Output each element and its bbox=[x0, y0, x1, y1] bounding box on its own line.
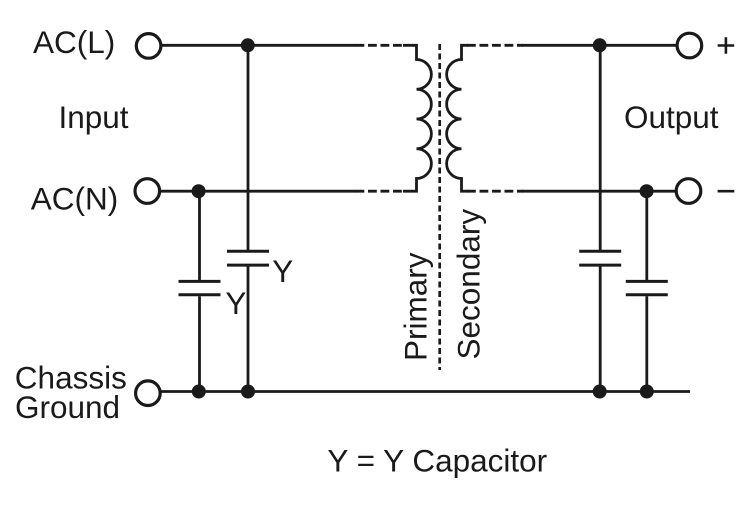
terminal chassis ground bbox=[136, 381, 161, 406]
wire vertical net plus to Y3 top plate bbox=[599, 45, 602, 250]
svg-text:Y: Y bbox=[225, 285, 246, 321]
wire AC(N) row: terminal to dash break bbox=[160, 190, 356, 193]
terminal output minus bbox=[676, 179, 701, 204]
capacitor Y4 top plate bbox=[626, 280, 668, 283]
svg-text:Primary: Primary bbox=[398, 252, 434, 361]
junction ground bus at Y3 bbox=[593, 385, 607, 399]
transformer T1 secondary winding bbox=[447, 45, 468, 191]
wire AC(L) row: dashed continuation to primary top bbox=[356, 44, 405, 47]
junction net N at Y1 tap bbox=[192, 184, 206, 198]
svg-text:Input: Input bbox=[59, 99, 129, 135]
wire AC(L) row: terminal to dash break bbox=[162, 44, 356, 47]
capacitor Y2 top plate bbox=[227, 250, 269, 253]
svg-text:AC(L): AC(L) bbox=[33, 24, 115, 60]
label plus sign bbox=[718, 37, 735, 54]
junction net L at Y2 tap bbox=[241, 38, 255, 52]
wire vertical Y3 bottom plate to ground bus bbox=[599, 266, 602, 391]
junction net minus at Y4 tap bbox=[640, 184, 654, 198]
svg-text:Output: Output bbox=[624, 99, 719, 135]
label minus sign bbox=[718, 190, 735, 193]
svg-text:Y: Y bbox=[272, 253, 293, 289]
wire vertical Y1 bottom plate to ground bus bbox=[198, 296, 201, 391]
wire vertical net N to Y1 top plate bbox=[198, 191, 201, 280]
junction ground bus at Y1 bbox=[192, 385, 206, 399]
wire vertical Y4 bottom plate to ground bus bbox=[645, 296, 648, 391]
capacitor Y1 top plate bbox=[179, 280, 221, 283]
wire AC(L) row right: secondary top dashed to output bbox=[467, 44, 523, 47]
wire AC(L) row right: solid to + terminal bbox=[522, 44, 676, 47]
capacitor Y3 bottom plate bbox=[579, 264, 621, 267]
wire minus row right: solid to minus terminal bbox=[522, 190, 676, 193]
junction net plus at Y3 tap bbox=[593, 38, 607, 52]
junction ground bus at Y4 bbox=[640, 385, 654, 399]
junction ground bus at Y2 bbox=[241, 385, 255, 399]
terminal AC(L) bbox=[136, 34, 161, 59]
transformer T1 primary winding bbox=[403, 45, 431, 191]
wire vertical net minus to Y4 top plate bbox=[645, 191, 648, 280]
capacitor Y4 bottom plate bbox=[626, 293, 668, 296]
svg-text:Ground: Ground bbox=[15, 389, 120, 425]
wire vertical Y2 bottom plate to ground bus bbox=[247, 266, 250, 391]
terminal output plus bbox=[677, 33, 702, 58]
terminal AC(N) bbox=[135, 179, 160, 204]
transformer T1 isolation barrier dashed line bbox=[438, 44, 441, 370]
svg-text:Y = Y Capacitor: Y = Y Capacitor bbox=[327, 443, 547, 479]
svg-text:AC(N): AC(N) bbox=[31, 181, 119, 217]
wire chassis ground bus bbox=[161, 390, 690, 393]
wire minus row right: secondary bottom dashed bbox=[467, 190, 523, 193]
svg-text:Secondary: Secondary bbox=[450, 209, 486, 360]
capacitor Y3 top plate bbox=[579, 250, 621, 253]
wire AC(N) row: dashed continuation to primary bottom bbox=[356, 190, 405, 193]
capacitor Y1 bottom plate bbox=[179, 293, 221, 296]
capacitor Y2 bottom plate bbox=[227, 264, 269, 267]
wire vertical net L to Y2 top plate bbox=[247, 45, 250, 250]
